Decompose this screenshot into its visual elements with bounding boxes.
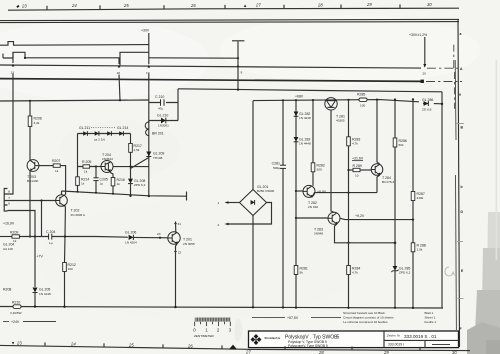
column x395: R286, GL285	[391, 100, 410, 308]
svg-text:333.0019 I: 333.0019 I	[388, 343, 404, 347]
svg-text:+30V: +30V	[141, 29, 150, 33]
+9,2V line from T283 right to x413	[340, 214, 414, 221]
wire: T203 emitter down to y236.5 line	[29, 171, 31, 237]
capacitor C205 (vertical, x96)	[93, 167, 108, 193]
column x348.5: R283, R289 tap	[347, 100, 361, 308]
wire: strip right end down through R217	[130, 134, 132, 144]
transistor T282	[303, 185, 318, 208]
svg-text:TH108: TH108	[153, 156, 163, 160]
svg-text:GL 211: GL 211	[79, 126, 90, 130]
+31,6V label	[352, 157, 364, 161]
wire: T202 collector stub to rail	[61, 191, 63, 195]
svg-text:20: 20	[157, 232, 161, 236]
bottom rail y307	[0, 307, 443, 309]
capacitor C204 (in line y236.5)	[46, 230, 96, 245]
svg-text:R285: R285	[357, 92, 365, 96]
svg-text:9: 9	[241, 71, 243, 75]
scanner shadow bottom-right	[467, 60, 500, 354]
diode GL211	[83, 131, 87, 136]
wire: drop from bus B at x13 with arrow to bus C, label 13	[11, 52, 15, 74]
svg-text:25: 25	[128, 342, 134, 347]
node dots on bottom rail (right box)	[282, 306, 284, 308]
node dot at (130.5,166.5)	[129, 165, 131, 167]
wire: T282 base from x296	[296, 190, 303, 192]
resistor R216 (vertical, x113)	[111, 178, 125, 194]
diode GL214	[119, 131, 123, 136]
svg-text:27: 27	[255, 3, 261, 8]
diode GL208 (vertical on x130)	[128, 167, 146, 196]
svg-text:a: a	[459, 93, 461, 97]
svg-text:1: 1	[218, 201, 220, 205]
wire: vertical x178 from y89 down to GL210 line	[177, 89, 179, 121]
svg-text:29: 29	[383, 350, 389, 354]
wire: stub from bus C down at x120 to rail	[119, 75, 120, 101]
terminal bar at end of rail	[186, 192, 188, 201]
wire: vertical x13 from bus D down to pin 8	[8, 74, 14, 195]
svg-text:+57,5V: +57,5V	[287, 316, 299, 320]
wire: T283 base from x296	[296, 217, 328, 219]
wire: bus B jump 13-25	[13, 52, 25, 58]
svg-text:5: 5	[337, 335, 340, 341]
svg-text:24: 24	[71, 3, 77, 8]
node dot at (148.8,196)	[148, 195, 150, 197]
wire: T201 emitter down to bottom rail, label 22	[174, 244, 181, 307]
choke BR201 on x149 column	[145, 121, 164, 136]
transistor T203	[27, 160, 39, 183]
wire: bus B jump 120-149	[120, 52, 149, 65]
node dot on bus B at x238	[237, 57, 239, 59]
svg-text:+9,2V: +9,2V	[355, 214, 365, 218]
svg-text:C 204: C 204	[46, 230, 55, 234]
svg-text:22: 22	[178, 251, 182, 255]
svg-text:ZENTIMETER: ZENTIMETER	[194, 334, 215, 338]
svg-text:▼: ▼	[11, 340, 15, 345]
resistor R289 (horizontal)	[349, 164, 372, 178]
transistor T281	[325, 98, 345, 123]
svg-text:R209: R209	[10, 231, 18, 235]
svg-text:26: 26	[187, 343, 193, 348]
svg-text:1k: 1k	[55, 169, 59, 173]
svg-text:4,7k: 4,7k	[352, 270, 358, 274]
node dot T283 base tap at (296,218)	[295, 217, 297, 219]
svg-text:1N 4448: 1N 4448	[299, 141, 311, 145]
wire: pin7 to T202 base	[8, 200, 56, 202]
svg-text:BR 201: BR 201	[152, 132, 164, 136]
resistor R205 (horizontal on base line)	[78, 160, 96, 174]
capacitor C210 (electrolytic, in line y=102)	[149, 95, 178, 111]
terminal T-bar at x238	[232, 41, 244, 90]
svg-text:13: 13	[11, 70, 15, 74]
svg-text:2N948: 2N948	[314, 232, 323, 236]
svg-text:26: 26	[190, 3, 196, 8]
svg-text:31: 31	[178, 222, 182, 226]
frame right border	[455, 19, 459, 347]
node dot R289 tap at (348.5,170)	[347, 169, 349, 171]
svg-text:1µ: 1µ	[100, 181, 104, 185]
+57,5V dash label under box	[252, 316, 341, 320]
resistor R207 (horizontal)	[39, 159, 66, 195]
resistor R210 (horizontal in rail)	[10, 300, 22, 314]
bus line C	[0, 45, 458, 109]
transistor T202	[56, 195, 86, 217]
bridge GL201 diamond	[240, 185, 275, 215]
svg-text:27: 27	[245, 350, 251, 354]
scanner smudge near centimeter scale	[235, 267, 455, 342]
svg-text:+16,9V: +16,9V	[3, 222, 15, 226]
wire: T283 emitter down then right to x395	[335, 224, 396, 243]
resistor R287 (vertical)	[411, 192, 415, 201]
node dot at (96,166.5)	[95, 165, 97, 167]
diode GL206 (in line y237)	[96, 230, 168, 244]
node dot on bus B at x25	[24, 57, 26, 59]
svg-text:2N 3055: 2N 3055	[183, 242, 195, 246]
transistor T204	[101, 153, 113, 173]
diode strip line y133.5	[78, 126, 131, 142]
svg-text:6: 6	[8, 202, 10, 206]
diode GL283 (vertical)	[294, 137, 299, 142]
svg-text:GL 214: GL 214	[117, 126, 128, 130]
svg-text:R 205: R 205	[82, 160, 91, 164]
svg-text:28: 28	[317, 2, 323, 7]
node dot at (348.5,242.8)	[347, 242, 349, 244]
wire: collector rail from T202 sloping to T-bar end	[62, 191, 187, 196]
box right edge x442	[441, 92, 443, 308]
wire: T283 collector from T281 emitter line	[333, 211, 335, 213]
bus line B	[3, 52, 239, 65]
diode GL212	[95, 131, 99, 136]
svg-text:1N 4448: 1N 4448	[299, 116, 311, 120]
svg-text:Sheet 1: Sheet 1	[425, 316, 436, 320]
svg-text:7: 7	[8, 196, 10, 200]
svg-text:AA 118: AA 118	[3, 247, 13, 251]
svg-text:40305: 40305	[336, 119, 345, 123]
svg-text:47µ: 47µ	[158, 107, 163, 111]
svg-text:1N3001: 1N3001	[158, 124, 169, 128]
svg-text:PolyscopeV. Type SWOB 5: PolyscopeV. Type SWOB 5	[288, 344, 328, 348]
svg-text:300: 300	[317, 168, 322, 172]
svg-text:23: 23	[21, 4, 27, 9]
wire: T284 emitter down to y192.6	[377, 175, 380, 193]
svg-text:3,16/5W: 3,16/5W	[10, 311, 22, 315]
resistor R214 (vertical, x77.5)	[76, 167, 90, 192]
svg-text:Stromlauf besteht aus 10 Blatt: Stromlauf besteht aus 10 Blatt.	[343, 311, 385, 315]
svg-text:ca 2 5,6: ca 2 5,6	[94, 138, 105, 142]
svg-text:28: 28	[318, 350, 324, 354]
svg-text:GL 210: GL 210	[157, 114, 168, 118]
wire: pin6 lead right then to x35 column	[8, 211, 36, 237]
wire: T201 collector up, label 31	[174, 222, 181, 233]
svg-text:a: a	[460, 32, 462, 36]
wire: diagonal from GL209 to x130 column	[130, 158, 149, 169]
svg-text:+7V: +7V	[37, 255, 44, 259]
svg-text:1k: 1k	[117, 182, 121, 186]
wire: x41.5 down to y236.5	[41, 201, 43, 237]
svg-text:18: 18	[117, 71, 121, 75]
column x413: R287, R288	[411, 99, 426, 308]
svg-text:Zeichn. Nr: Zeichn. Nr	[386, 334, 401, 338]
box top rail y100	[253, 100, 442, 104]
svg-text:R208: R208	[3, 288, 11, 292]
svg-text:100: 100	[360, 104, 365, 108]
svg-text:ZD 6,8: ZD 6,8	[422, 107, 432, 111]
diode GL213	[107, 131, 111, 136]
node dot at (30,236.5)	[29, 235, 31, 237]
svg-text:B250 C5000: B250 C5000	[257, 189, 274, 193]
svg-text:▲: ▲	[243, 3, 247, 8]
+24V dash label	[3, 320, 56, 324]
wire: T284 collector up to rail	[377, 100, 380, 165]
wire: drop at x119 with arrow to bus C, label 18	[117, 58, 121, 75]
svg-text:500µ: 500µ	[273, 166, 280, 170]
svg-text:Circuit diagram consists of 10: Circuit diagram consists of 10 sheets	[343, 316, 394, 320]
Rohde & Schwarz logo	[251, 334, 262, 345]
wire: T204 emitter down through R216 to rail	[110, 172, 113, 177]
resistor R286 (vertical)	[393, 138, 397, 147]
wire: vertical x149 from arrow19 down	[148, 74, 150, 197]
svg-text:4,7k: 4,7k	[352, 142, 358, 146]
node dot T282 base at (296,191)	[295, 190, 297, 192]
svg-text:+24V: +24V	[11, 320, 20, 324]
diode GL205 (vertical on x35)	[33, 237, 51, 308]
svg-text:1N 4148: 1N 4148	[39, 292, 51, 296]
arrow 2 from bridge right corner	[218, 203, 272, 227]
transistor T284	[371, 164, 394, 184]
column x296: GL282, GL283, R281	[294, 100, 311, 307]
dash-dot tail of bus C to border	[427, 67, 458, 69]
svg-text:R207: R207	[52, 159, 60, 163]
resistor R283 (vertical)	[347, 137, 351, 146]
resistor R206 (vertical, x30)	[28, 101, 42, 160]
svg-text:8: 8	[8, 189, 10, 193]
svg-text:1,5k: 1,5k	[417, 248, 423, 252]
+30V regulation label top right	[409, 33, 427, 83]
svg-text:1µ: 1µ	[49, 241, 53, 245]
top ruler line	[8, 4, 459, 10]
svg-text:+30V±1,2%: +30V±1,2%	[409, 33, 427, 37]
node dot at (238,89.6)	[237, 89, 239, 91]
svg-text:20: 20	[423, 72, 427, 76]
diode GL286 (in top rail)	[422, 98, 443, 111]
svg-text:1k: 1k	[84, 170, 88, 174]
svg-text:2N 2906 A: 2N 2906 A	[71, 213, 86, 217]
divider	[383, 331, 385, 348]
resistor R217 (vertical, x130)	[129, 144, 142, 167]
svg-text:R 289: R 289	[353, 164, 362, 168]
capacitor C281 (electrolytic on x283 column)	[272, 100, 286, 307]
node dot at (348.5,192.6)	[347, 192, 349, 194]
node dot at (160,237.7) with label 20	[159, 237, 161, 239]
svg-text:100: 100	[68, 267, 73, 271]
frame top border (double line)	[0, 19, 459, 22]
+30V label and drop at x149 with arrow, label 19	[141, 29, 150, 76]
svg-text:ZPD 6,2: ZPD 6,2	[399, 270, 411, 274]
resistor R284 (vertical on x348.5)	[347, 266, 361, 275]
svg-text:Feuille 1: Feuille 1	[425, 320, 437, 324]
svg-text:b: b	[461, 185, 463, 189]
node dot at (130.5,195.9)	[129, 195, 131, 197]
right margin letters	[459, 32, 464, 331]
node dot at (120,100.2)	[119, 99, 121, 101]
svg-text:29: 29	[366, 2, 372, 7]
svg-text:BC178-2: BC178-2	[382, 180, 394, 184]
svg-text:1k: 1k	[81, 181, 85, 185]
wire: T281 emitter down to T283 collector	[331, 110, 334, 212]
wire: T202 emitter down to y236.5	[64, 206, 66, 236]
svg-text:2: 2	[218, 223, 220, 227]
svg-text:50k: 50k	[399, 143, 404, 147]
transistor T283	[314, 212, 340, 235]
dash-dot tail of bus D to border	[426, 81, 462, 83]
wire: base into T204	[96, 166, 101, 168]
svg-text:F: F	[460, 327, 462, 331]
diode GL210 (in line y=120.5)	[149, 114, 178, 128]
transistor T201	[168, 232, 195, 246]
svg-text:240k: 240k	[417, 196, 424, 200]
node dot at (395,242.8)	[394, 242, 397, 245]
resistor R281 (vertical)	[294, 266, 298, 275]
resistor R212 (vertical, x64)	[63, 237, 76, 308]
svg-text:333.0019 S . 01: 333.0019 S . 01	[404, 334, 437, 339]
node dots on top rail	[282, 99, 284, 101]
arrow 1 from bridge left corner	[218, 201, 240, 205]
svg-text:BC143K: BC143K	[27, 179, 39, 183]
long rail y=100.5 left part	[0, 75, 149, 102]
wire: bridge top corner up to box corner	[252, 101, 254, 190]
wire: T282 emitter to y192.6 line then right to T284 emitter drop	[312, 193, 377, 198]
resistor R209 (horizontal on y236.5 line)	[0, 231, 49, 243]
svg-text:24: 24	[70, 341, 76, 346]
top ruler numbers	[16, 2, 432, 8]
svg-text:GL 206: GL 206	[125, 230, 136, 234]
connector bracket left (pins 8,7,6)	[4, 189, 10, 212]
resistor R285 (horizontal on top rail)	[357, 92, 367, 107]
svg-text:R210: R210	[12, 300, 20, 304]
svg-text:25: 25	[123, 3, 129, 8]
node dots on bottom rail	[34, 305, 36, 307]
svg-text:23: 23	[16, 340, 22, 345]
svg-text:Blatt 1: Blatt 1	[425, 311, 434, 315]
diode GL282 (vertical)	[294, 112, 299, 117]
node dot at (35,236.5)	[34, 235, 36, 237]
node dot rail at (296,307.6)	[295, 307, 297, 309]
node dots on collector rail	[77, 191, 79, 193]
column x313: R282 down to T282	[311, 100, 325, 186]
resistor R282 (vertical)	[311, 163, 315, 172]
right margin ticks	[456, 124, 464, 299]
wire: strip left end down to base line	[77, 134, 79, 167]
resistor R288 (vertical)	[411, 243, 415, 252]
svg-text:+68V: +68V	[295, 95, 304, 99]
svg-text:3,3k: 3,3k	[34, 121, 40, 125]
bus line A (+30V feed)	[0, 42, 149, 46]
svg-text:1,5k: 1,5k	[134, 148, 140, 152]
node dot at (30,100.8)	[29, 100, 31, 102]
wire: T204 collector line to x148.8	[113, 166, 149, 168]
node dot at (41.5,200.5)	[40, 199, 42, 201]
diode GL209 on x149 column	[146, 152, 164, 160]
svg-text:ZPD 6,2: ZPD 6,2	[134, 183, 146, 187]
svg-text:2N 918: 2N 918	[308, 205, 318, 209]
svg-text:C 210: C 210	[155, 95, 164, 99]
wire: bridge bottom corner down to rail	[252, 216, 254, 308]
svg-text:2N3643: 2N3643	[102, 157, 113, 161]
svg-text:10: 10	[355, 173, 359, 177]
bus line D (thick)	[0, 79, 462, 82]
svg-text:30: 30	[452, 350, 457, 354]
svg-text:1N 4204: 1N 4204	[125, 241, 137, 245]
diode GL204 labels	[3, 243, 14, 251]
svg-text:Stromlauf zu: Stromlauf zu	[265, 336, 281, 340]
svg-text:+31,6V: +31,6V	[352, 157, 364, 161]
svg-text:5k: 5k	[300, 270, 304, 274]
svg-text:Le schéma comprend 10 feuille: Le schéma comprend 10 feuilles	[343, 320, 388, 324]
svg-text:30: 30	[427, 2, 432, 7]
wire: line y=89 from x178 to box right edge	[178, 89, 442, 92]
diode GL285 (zener, vertical)	[393, 266, 398, 271]
node dot at (64,236.5)	[64, 235, 66, 237]
